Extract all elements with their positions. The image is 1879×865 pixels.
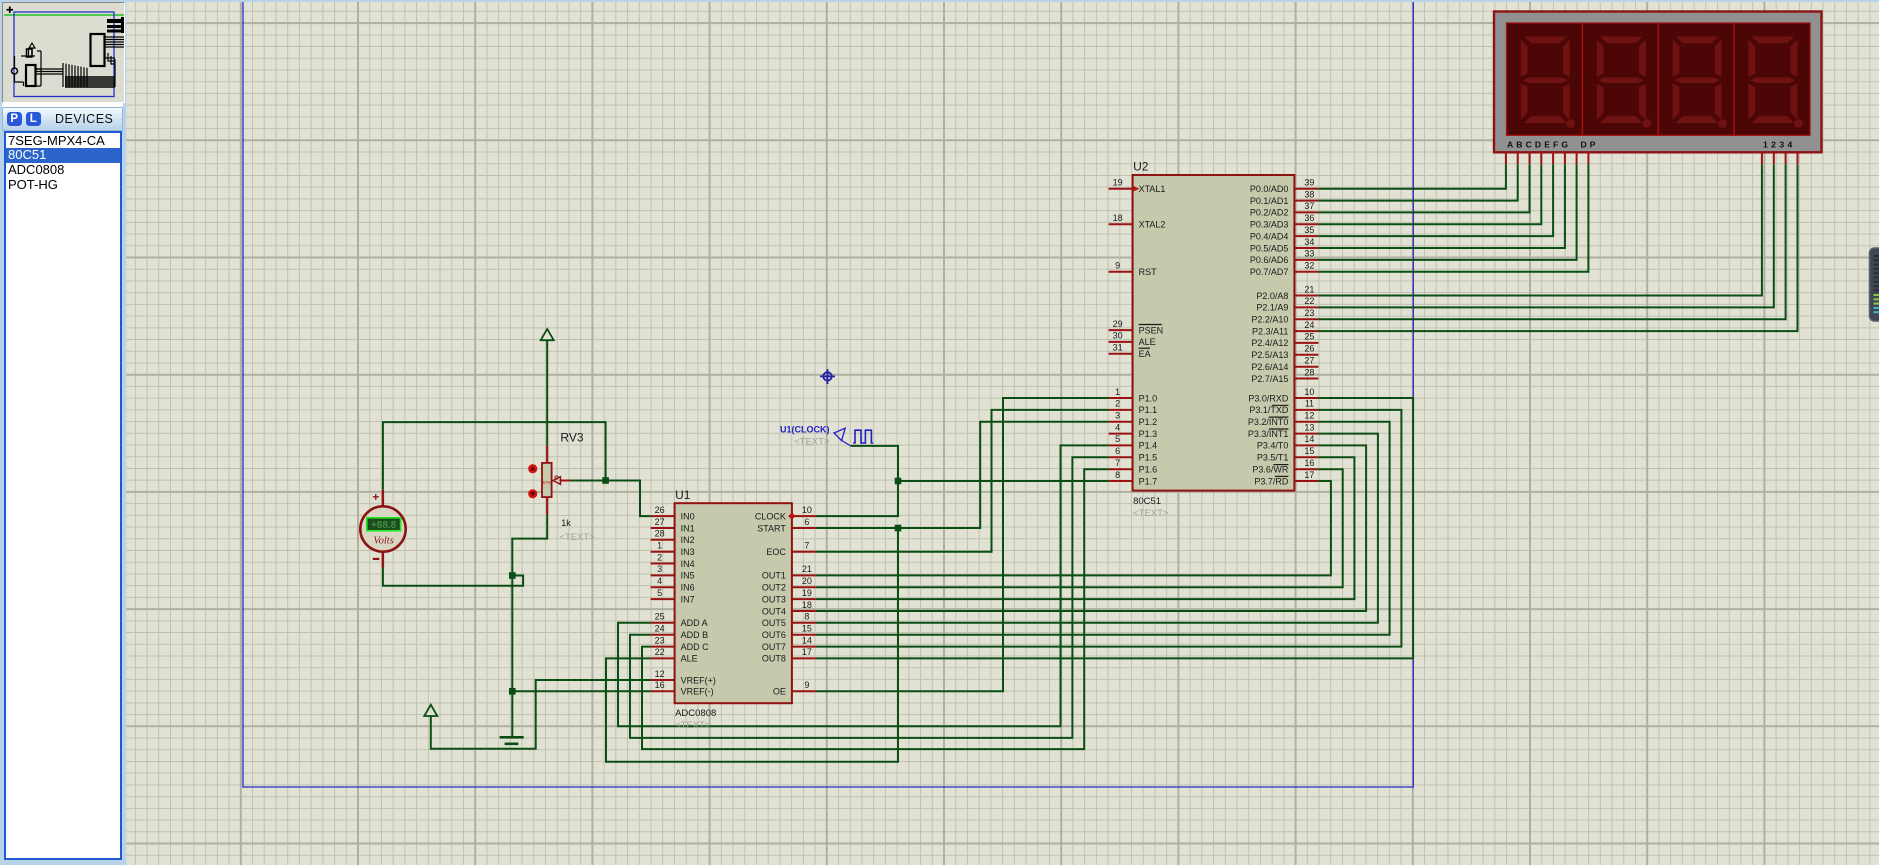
svg-text:12: 12 — [1304, 411, 1314, 421]
svg-text:14: 14 — [802, 635, 812, 645]
svg-text:P1.0: P1.0 — [1139, 393, 1158, 403]
svg-text:ADD B: ADD B — [681, 630, 709, 640]
svg-text:7: 7 — [804, 541, 809, 551]
svg-text:EA: EA — [1139, 349, 1151, 359]
svg-text:18: 18 — [802, 600, 812, 610]
svg-text:17: 17 — [1304, 470, 1314, 480]
svg-text:1234: 1234 — [1763, 140, 1796, 150]
svg-text:CLOCK: CLOCK — [755, 511, 786, 521]
svg-text:P1.6: P1.6 — [1139, 465, 1158, 475]
svg-text:P2.6/A14: P2.6/A14 — [1251, 362, 1288, 372]
svg-text:P2.1/A9: P2.1/A9 — [1256, 303, 1288, 313]
svg-text:7: 7 — [1115, 458, 1120, 468]
svg-text:VREF(-): VREF(-) — [681, 687, 714, 697]
svg-text:32: 32 — [1304, 261, 1314, 271]
svg-text:Volts: Volts — [373, 536, 393, 547]
svg-text:P3.2/INT0: P3.2/INT0 — [1248, 417, 1289, 427]
svg-text:26: 26 — [1304, 344, 1314, 354]
svg-text:IN5: IN5 — [681, 571, 695, 581]
svg-text:22: 22 — [655, 647, 665, 657]
svg-text:ALE: ALE — [1139, 337, 1156, 347]
svg-text:4: 4 — [657, 576, 662, 586]
svg-text:PSEN: PSEN — [1139, 325, 1164, 335]
svg-text:9: 9 — [804, 680, 809, 690]
svg-text:P1.2: P1.2 — [1139, 417, 1158, 427]
svg-text:<TEXT>: <TEXT> — [1133, 508, 1169, 519]
svg-text:IN7: IN7 — [681, 594, 695, 604]
svg-text:16: 16 — [655, 680, 665, 690]
svg-text:26: 26 — [655, 505, 665, 515]
svg-text:35: 35 — [1304, 225, 1314, 235]
svg-text:3: 3 — [1115, 411, 1120, 421]
svg-text:IN4: IN4 — [681, 559, 695, 569]
svg-text:<TEXT>: <TEXT> — [675, 720, 711, 731]
svg-text:6: 6 — [804, 517, 809, 527]
svg-text:U1: U1 — [675, 488, 691, 502]
svg-text:P3.0/RXD: P3.0/RXD — [1248, 393, 1289, 403]
svg-text:57%: 57% — [542, 480, 551, 485]
svg-text:21: 21 — [802, 564, 812, 574]
svg-text:ADC0808: ADC0808 — [675, 708, 716, 719]
svg-text:IN0: IN0 — [681, 511, 695, 521]
svg-text:13: 13 — [1304, 422, 1314, 432]
svg-text:IN6: IN6 — [681, 583, 695, 593]
svg-text:1: 1 — [657, 541, 662, 551]
svg-text:34: 34 — [1304, 237, 1314, 247]
svg-text:P0.5/AD5: P0.5/AD5 — [1250, 243, 1289, 253]
svg-text:P2.7/A15: P2.7/A15 — [1251, 374, 1288, 384]
svg-text:OUT2: OUT2 — [762, 583, 786, 593]
svg-text:8: 8 — [1115, 470, 1120, 480]
svg-text:19: 19 — [1113, 178, 1123, 188]
svg-text:P1.7: P1.7 — [1139, 476, 1158, 486]
svg-text:P1.3: P1.3 — [1139, 429, 1158, 439]
svg-text:+: + — [372, 490, 379, 504]
svg-text:IN1: IN1 — [681, 523, 695, 533]
svg-text:25: 25 — [1304, 332, 1314, 342]
svg-text:8: 8 — [804, 612, 809, 622]
svg-text:RV3: RV3 — [560, 431, 583, 445]
svg-text:P0.4/AD4: P0.4/AD4 — [1250, 231, 1289, 241]
svg-text:P2.2/A10: P2.2/A10 — [1251, 315, 1288, 325]
svg-text:23: 23 — [655, 635, 665, 645]
svg-text:START: START — [757, 523, 786, 533]
svg-text:+88.8: +88.8 — [371, 520, 397, 531]
svg-text:2: 2 — [1115, 399, 1120, 409]
svg-text:27: 27 — [655, 517, 665, 527]
svg-text:P0.1/AD1: P0.1/AD1 — [1250, 196, 1289, 206]
svg-text:25: 25 — [655, 612, 665, 622]
svg-text:P1.1: P1.1 — [1139, 405, 1158, 415]
svg-text:ADD A: ADD A — [681, 618, 708, 628]
svg-text:ABCDEFG: ABCDEFG — [1507, 140, 1571, 150]
svg-text:OUT4: OUT4 — [762, 606, 786, 616]
svg-text:P0.0/AD0: P0.0/AD0 — [1250, 184, 1289, 194]
svg-text:DP: DP — [1581, 140, 1599, 150]
svg-text:19: 19 — [802, 588, 812, 598]
svg-text:33: 33 — [1304, 249, 1314, 259]
svg-text:38: 38 — [1304, 189, 1314, 199]
svg-text:5: 5 — [657, 588, 662, 598]
svg-text:ALE: ALE — [681, 654, 698, 664]
svg-text:<TEXT>: <TEXT> — [794, 436, 830, 447]
svg-text:U1(CLOCK): U1(CLOCK) — [780, 424, 830, 434]
svg-text:P3.3/INT1: P3.3/INT1 — [1248, 429, 1289, 439]
svg-text:29: 29 — [1113, 319, 1123, 329]
svg-text:IN3: IN3 — [681, 547, 695, 557]
svg-text:VREF(+): VREF(+) — [681, 675, 716, 685]
svg-text:P3.6/WR: P3.6/WR — [1252, 465, 1289, 475]
svg-text:P0.7/AD7: P0.7/AD7 — [1250, 267, 1289, 277]
svg-text:36: 36 — [1304, 213, 1314, 223]
svg-text:2: 2 — [657, 552, 662, 562]
svg-text:4: 4 — [1115, 422, 1120, 432]
svg-text:P3.1/TXD: P3.1/TXD — [1249, 405, 1289, 415]
svg-text:XTAL1: XTAL1 — [1139, 184, 1166, 194]
svg-text:EOC: EOC — [766, 547, 786, 557]
svg-text:OUT5: OUT5 — [762, 618, 786, 628]
svg-text:RST: RST — [1139, 267, 1158, 277]
svg-text:15: 15 — [1304, 446, 1314, 456]
svg-text:6: 6 — [1115, 446, 1120, 456]
svg-text:ADD C: ADD C — [681, 642, 710, 652]
svg-text:24: 24 — [655, 624, 665, 634]
svg-text:<TEXT>: <TEXT> — [559, 532, 595, 543]
svg-text:12: 12 — [655, 669, 665, 679]
svg-text:OUT8: OUT8 — [762, 654, 786, 664]
svg-text:17: 17 — [802, 647, 812, 657]
svg-text:P3.5/T1: P3.5/T1 — [1257, 453, 1289, 463]
svg-text:OUT6: OUT6 — [762, 630, 786, 640]
svg-text:27: 27 — [1304, 356, 1314, 366]
svg-text:3: 3 — [657, 564, 662, 574]
svg-text:XTAL2: XTAL2 — [1139, 220, 1166, 230]
svg-text:10: 10 — [1304, 387, 1314, 397]
svg-text:1k: 1k — [561, 518, 571, 528]
svg-text:P0.3/AD3: P0.3/AD3 — [1250, 220, 1289, 230]
svg-text:P2.3/A11: P2.3/A11 — [1252, 326, 1288, 336]
svg-text:OUT3: OUT3 — [762, 594, 786, 604]
svg-text:5: 5 — [1115, 434, 1120, 444]
svg-text:P2.5/A13: P2.5/A13 — [1251, 350, 1288, 360]
svg-text:21: 21 — [1304, 284, 1314, 294]
svg-text:IN2: IN2 — [681, 535, 695, 545]
svg-text:P1.5: P1.5 — [1139, 453, 1158, 463]
svg-text:20: 20 — [802, 576, 812, 586]
svg-text:80C51: 80C51 — [1133, 496, 1161, 507]
svg-text:11: 11 — [1305, 399, 1314, 409]
svg-text:P2.0/A8: P2.0/A8 — [1256, 291, 1288, 301]
svg-text:P0.2/AD2: P0.2/AD2 — [1250, 208, 1289, 218]
svg-text:P1.4: P1.4 — [1139, 441, 1158, 451]
svg-text:9: 9 — [1115, 261, 1120, 271]
svg-text:31: 31 — [1113, 343, 1123, 353]
svg-text:OUT1: OUT1 — [762, 571, 786, 581]
svg-text:39: 39 — [1304, 178, 1314, 188]
svg-text:U2: U2 — [1133, 160, 1149, 174]
svg-text:P0.6/AD6: P0.6/AD6 — [1250, 255, 1289, 265]
svg-text:14: 14 — [1304, 434, 1314, 444]
svg-text:P3.7/RD: P3.7/RD — [1254, 476, 1289, 486]
svg-text:1: 1 — [1115, 387, 1120, 397]
svg-text:P2.4/A12: P2.4/A12 — [1251, 338, 1288, 348]
svg-text:15: 15 — [802, 624, 812, 634]
svg-text:24: 24 — [1304, 320, 1314, 330]
svg-text:10: 10 — [802, 505, 812, 515]
svg-text:OE: OE — [773, 687, 786, 697]
svg-text:22: 22 — [1304, 296, 1314, 306]
svg-text:28: 28 — [655, 529, 665, 539]
svg-text:18: 18 — [1113, 213, 1123, 223]
svg-text:16: 16 — [1304, 458, 1314, 468]
svg-text:OUT7: OUT7 — [762, 642, 786, 652]
svg-text:30: 30 — [1113, 331, 1123, 341]
svg-text:28: 28 — [1304, 367, 1314, 377]
svg-text:23: 23 — [1304, 308, 1314, 318]
svg-text:P3.4/T0: P3.4/T0 — [1257, 441, 1289, 451]
svg-text:37: 37 — [1304, 201, 1314, 211]
